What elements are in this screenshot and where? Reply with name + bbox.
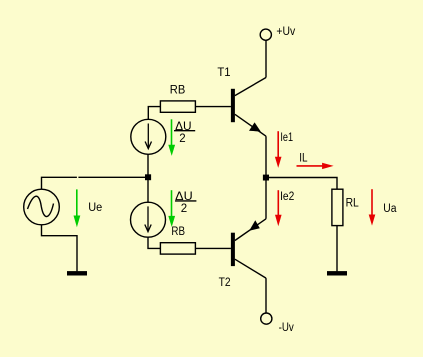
- current source Q2 (lower ΔU/2): [131, 202, 166, 237]
- ground GND1: [67, 271, 87, 275]
- arrow Ie1 (red): [275, 131, 282, 168]
- svg-text:+Uv: +Uv: [276, 26, 295, 38]
- wire output node to RL: [266, 178, 337, 190]
- wire RL bottom to ground: [336, 226, 338, 272]
- svg-text:-Uv: -Uv: [279, 322, 294, 334]
- transistor T2: [231, 219, 266, 278]
- wire T2 collector to -Uv: [265, 278, 267, 313]
- arrow Ie2 (red): [275, 190, 282, 226]
- voltage source V1 (sine): [24, 189, 60, 225]
- svg-text:Ie1: Ie1: [280, 132, 293, 144]
- resistor RL: [332, 189, 343, 225]
- svg-text:2: 2: [179, 133, 185, 145]
- wire sine bottom to ground: [42, 225, 78, 272]
- arrow Ue (green): [74, 189, 81, 227]
- arrow IL (red): [297, 163, 334, 169]
- wire T2 emitter to output node: [265, 178, 267, 219]
- arrow ΔU/2 upper (green): [168, 119, 175, 156]
- svg-text:RL: RL: [346, 197, 360, 209]
- resistor RB1: [160, 101, 195, 112]
- wire RB2 to T2 base: [195, 247, 231, 249]
- svg-text:T2: T2: [219, 277, 231, 289]
- wire current source 1 top to RB1: [148, 107, 160, 120]
- svg-text:T1: T1: [217, 67, 230, 79]
- wire node to current source 2: [147, 177, 149, 203]
- current source Q1 (upper ΔU/2): [131, 119, 166, 154]
- wire T1 emitter to output node: [265, 136, 267, 177]
- svg-text:RB: RB: [171, 226, 185, 238]
- svg-text:Ua: Ua: [383, 203, 397, 215]
- terminal +Uv: [260, 29, 271, 40]
- node A (base node junction): [145, 174, 151, 180]
- svg-text:IL: IL: [299, 153, 308, 165]
- wire node to current source 1: [147, 155, 149, 178]
- ground GND2: [327, 271, 347, 275]
- resistor RB2: [160, 243, 195, 254]
- wire sine top to base node: [42, 177, 149, 189]
- svg-text:RB: RB: [170, 85, 186, 97]
- arrow Ua (red): [369, 189, 376, 225]
- svg-text:Ue: Ue: [88, 202, 102, 214]
- svg-text:2: 2: [181, 203, 187, 215]
- svg-text:Ie2: Ie2: [280, 191, 294, 203]
- arrow ΔU/2 lower (green): [168, 190, 175, 227]
- wire T1 collector to +Uv: [265, 40, 267, 77]
- node B (output node junction): [263, 175, 269, 181]
- wire current source 2 bottom to RB2: [148, 237, 160, 248]
- wire RB1 to T1 base: [195, 106, 231, 108]
- terminal -Uv: [261, 313, 272, 324]
- transistor T1: [231, 78, 266, 137]
